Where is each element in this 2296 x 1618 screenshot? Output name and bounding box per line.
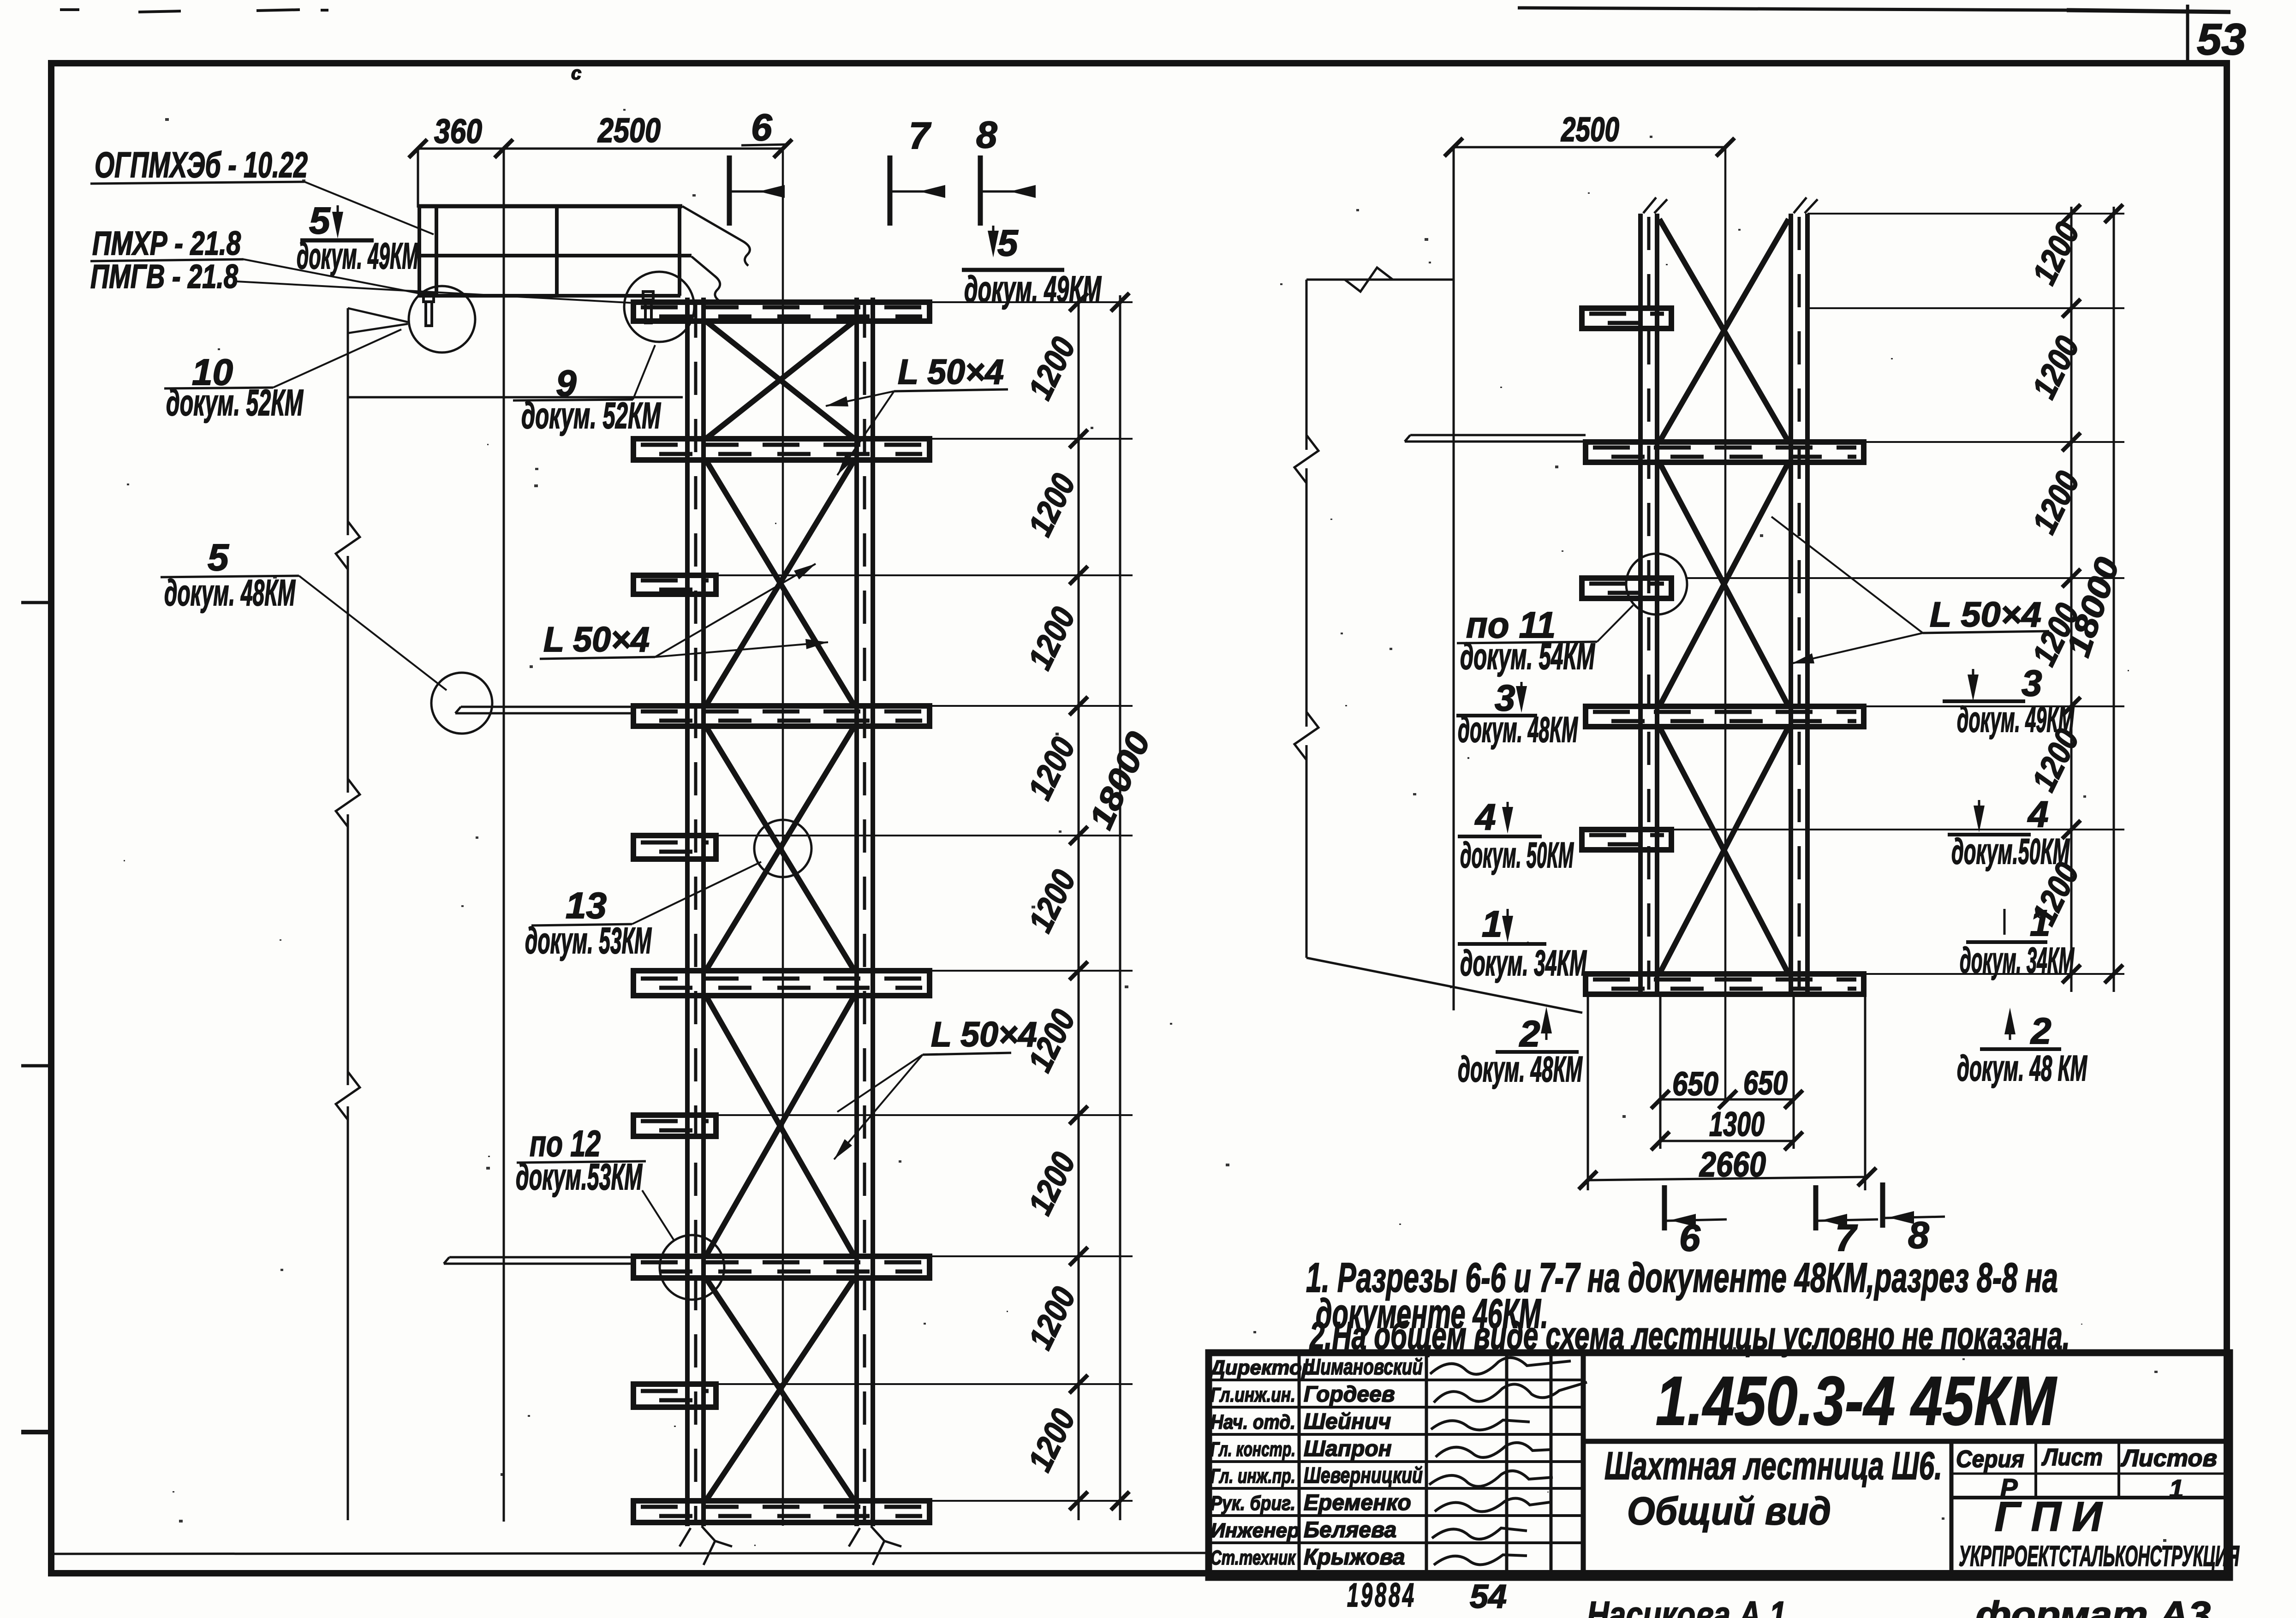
X brace (right view) 1575-2111 [1659,727,1789,974]
signature 1 [1430,1358,1571,1374]
bracket right edge [678,206,681,296]
title block code box divider [1583,1439,2230,1444]
svg-text:докум. 49КМ: докум. 49КМ [297,235,419,276]
left border fold ticks [21,601,51,604]
bracket break mark diagonal 1 [682,206,750,266]
svg-text:54: 54 [1470,1578,1507,1615]
svg-text:2: 2 [2030,1010,2051,1051]
svg-text:ОГПМХЭб - 10.22: ОГПМХЭб - 10.22 [95,144,308,185]
long platform (right view) y=2111 [1586,974,1864,994]
detail circle on rail at 2747 [660,1235,724,1300]
svg-text:докум. 34КМ: докум. 34КМ [1460,943,1587,983]
svg-text:2: 2 [1519,1013,1540,1054]
long platform (right view) y=958 [1586,442,1864,462]
svg-text:Гл.инж.ин.: Гл.инж.ин. [1211,1384,1295,1406]
thin plate at level 2723 [449,1256,633,1259]
svg-text:ПМХР - 21.8: ПМХР - 21.8 [92,225,241,262]
section mark 6 (top) [727,155,732,226]
X brace panel 2158-2723 [706,996,854,1256]
svg-text:ГПИ: ГПИ [1995,1494,2113,1540]
svg-text:Шеверницкий: Шеверницкий [1304,1463,1423,1488]
diagonal to bottom corner [1306,958,1582,1013]
leader PMHR [244,259,429,295]
dim line 18000 (left view) [1119,295,1121,1520]
bracket top chord [417,204,682,209]
bottom thin line [54,1553,1206,1554]
bracket mid chord [417,254,692,257]
svg-text:Гл. инж.пр.: Гл. инж.пр. [1211,1465,1295,1487]
svg-text:L 50×4: L 50×4 [931,1015,1037,1054]
svg-text:докум. 48 КМ: докум. 48 КМ [1957,1048,2087,1088]
svg-text:Шахтная лестница Ш6.: Шахтная лестница Ш6. [1604,1444,1942,1487]
svg-text:Листов: Листов [2120,1445,2217,1472]
bracket break mark diagonal 2 [692,257,720,301]
X brace (right view) 475-958 [1659,219,1789,442]
anchor bolt left [423,293,434,302]
svg-text:Общий вид: Общий вид [1627,1489,1831,1533]
svg-text:4: 4 [1474,796,1496,837]
dim line 18000 (right view) [2113,207,2115,992]
svg-text:5: 5 [997,222,1019,263]
left bracket line (right view) with breaks [1306,280,1308,450]
shaft wall line [503,149,505,1522]
stub platform at y=3000 [633,1384,716,1407]
thin plate at level 1530 with detail circle [461,706,633,708]
svg-text:6: 6 [1679,1217,1701,1259]
svg-text:7: 7 [909,115,931,157]
left rail of ladder (left view) [685,298,690,1526]
signature 8 [1434,1555,1527,1565]
svg-text:c: c [571,63,581,84]
svg-text:Инженер: Инженер [1211,1519,1300,1542]
long platform at y=655 [633,302,930,321]
long platform at y=951 [633,439,930,460]
centre line (right view) [1724,147,1727,1103]
signature 6 [1435,1499,1550,1512]
signature 7 [1432,1528,1527,1539]
svg-text:Насикова А.1: Насикова А.1 [1587,1594,1786,1618]
svg-text:53: 53 [2197,15,2246,64]
section mark 8 (bottom) [1880,1182,1885,1228]
signature table verticals [1298,1353,1301,1577]
svg-text:8: 8 [1908,1214,1929,1256]
svg-text:19884: 19884 [1347,1577,1416,1614]
wedge leader to left anchor [348,308,408,322]
signature table rows [1209,1379,1583,1381]
svg-text:7: 7 [1835,1217,1858,1259]
long platform at y=2104 [633,971,930,996]
section mark 7 (top) [888,155,893,226]
scan noise specks [1032,906,1035,908]
top edge scan noise [60,8,79,11]
floor line under bracket [348,396,683,399]
svg-text:2500: 2500 [1560,110,1619,149]
svg-text:Гордеев: Гордеев [1304,1382,1395,1407]
svg-text:Рук. бриг.: Рук. бриг. [1211,1492,1295,1515]
svg-text:650: 650 [1743,1065,1788,1102]
detail circle left anchor [409,286,475,352]
svg-text:формат А3: формат А3 [1975,1594,2211,1618]
stub platform (right view) y=1253 [1582,578,1671,598]
X brace panel 997-1530 [706,460,854,706]
svg-text:докум. 49КМ: докум. 49КМ [1957,699,2075,740]
bracket inner stiffener 2 [555,206,559,298]
page number 53 [2186,5,2189,64]
top dim 2500 (right view) [1454,146,1725,149]
svg-text:1: 1 [2030,902,2051,943]
svg-text:докум. 52КМ: докум. 52КМ [521,395,661,436]
svg-text:1.450.3-4 45КМ: 1.450.3-4 45КМ [1656,1362,2057,1439]
signature 4 [1436,1443,1551,1457]
dim line 1200s (left view) [1078,295,1080,1520]
bracket floor chord [417,294,680,298]
long platform at y=3253 [633,1501,930,1522]
svg-text:2660: 2660 [1699,1145,1766,1184]
X brace panel 2770-3253 [706,1278,854,1501]
svg-text:Гл. констр.: Гл. констр. [1211,1438,1295,1461]
svg-text:докум. 50КМ: докум. 50КМ [1460,835,1574,875]
svg-text:Ст.техник: Ст.техник [1211,1546,1296,1569]
ladder centre line (left view) [782,149,784,1526]
svg-text:1: 1 [2169,1474,2183,1503]
X brace panel 1574-2104 [706,726,854,971]
svg-text:650: 650 [1672,1066,1718,1103]
svg-text:8: 8 [976,114,997,156]
svg-text:докум.50КМ: докум.50КМ [1951,831,2070,872]
detail circle at X crossing (13) [754,820,811,877]
svg-text:Шейнич: Шейнич [1304,1409,1391,1434]
svg-text:докум. 34КМ: докум. 34КМ [1960,940,2075,980]
svg-text:докум. 52КМ: докум. 52КМ [166,382,304,423]
X brace panel 696-951 [706,321,854,439]
section mark 6 (bottom) [1662,1185,1667,1230]
detail circle on rail (po 11) [1626,554,1687,615]
X brace (right view) 1002-1531 [1659,462,1789,706]
svg-text:1: 1 [1482,903,1503,944]
bottom extension lines [1587,994,1589,1190]
detail circle right anchor [624,272,694,342]
stub platform (right view) y=1798 [1582,830,1671,850]
dim extension lines (right view) [1807,213,2124,215]
anchor bolt right [643,292,653,300]
svg-text:докум.53КМ: докум.53КМ [516,1156,643,1197]
stub platform at y=1247 [633,575,716,594]
svg-text:Крыжова: Крыжова [1304,1545,1405,1570]
svg-text:Еременко: Еременко [1304,1491,1411,1515]
leader PMGV [237,281,645,304]
svg-text:1300: 1300 [1709,1105,1765,1143]
long platform (right view) y=1531 [1586,706,1864,727]
svg-text:докум. 48КМ: докум. 48КМ [1458,709,1578,750]
dim line 360/2500 (top of left view) [418,148,783,150]
rail top break marks [1643,197,1667,213]
dimension extension lines (left view) [930,301,1133,303]
svg-text:Нач. отд.: Нач. отд. [1211,1411,1295,1433]
svg-text:6: 6 [751,107,773,149]
svg-text:Беляева: Беляева [1304,1518,1396,1542]
svg-text:360: 360 [434,112,482,150]
svg-text:3: 3 [2022,663,2042,704]
section mark 7 (bottom) [1813,1185,1819,1230]
svg-text:L 50×4: L 50×4 [543,620,650,659]
dim 1300 [1660,1140,1794,1142]
svg-text:4: 4 [2027,794,2049,835]
extension line x906 [417,149,419,208]
right rail of ladder (left view) [854,298,859,1526]
section mark 5 (right of 8) [992,226,995,250]
signature 2 [1434,1382,1587,1403]
svg-text:докум. 54КМ: докум. 54КМ [1460,636,1595,677]
svg-text:Шимановский: Шимановский [1304,1355,1423,1379]
left rail (right view) [1638,214,1643,993]
stub platform (right view) y=668 [1582,308,1671,328]
signature 5 [1429,1471,1553,1487]
svg-text:2500: 2500 [597,111,661,149]
right rail (right view) [1789,214,1793,993]
dim 650+650 [1660,1099,1794,1101]
svg-text:Лист: Лист [2041,1444,2103,1471]
seriya/list/listov box [1950,1441,1954,1577]
long platform at y=1530 [633,706,930,726]
wall line with breaks (left) [347,308,349,535]
stub platform at y=1811 [633,836,716,859]
section mark 8 (top) [978,155,983,226]
leader [304,182,434,234]
svg-text:докум. 53КМ: докум. 53КМ [525,920,652,961]
dim line 1200s (right view) [2070,207,2073,992]
svg-text:УКРПРОЕКТСТАЛЬКОНСТРУКЦИЯ: УКРПРОЕКТСТАЛЬКОНСТРУКЦИЯ [1959,1540,2240,1572]
bracket inner stiffener 1 [435,206,438,296]
svg-text:Директор: Директор [1209,1356,1314,1379]
dim 2660 [1588,1177,1867,1180]
signature 3 [1431,1420,1530,1430]
svg-text:L 50×4: L 50×4 [898,352,1004,392]
stub platform at y=2417 [633,1115,716,1136]
svg-text:Шапрон: Шапрон [1304,1437,1392,1461]
rail bottom break marks [680,1526,732,1565]
svg-text:докум. 48КМ: докум. 48КМ [1458,1049,1583,1089]
left extension line (right view) [1453,147,1455,1010]
bracket top line (right view) [1306,279,1454,281]
svg-text:докум. 49КМ: докум. 49КМ [964,269,1102,310]
svg-text:ПМГВ - 21.8: ПМГВ - 21.8 [90,258,238,295]
long platform at y=2723 [633,1256,930,1278]
svg-text:Серия: Серия [1956,1446,2024,1473]
bracket left edge [417,206,421,296]
svg-text:L 50×4: L 50×4 [1930,595,2041,634]
thin plate left of platform R2 [1410,434,1586,436]
